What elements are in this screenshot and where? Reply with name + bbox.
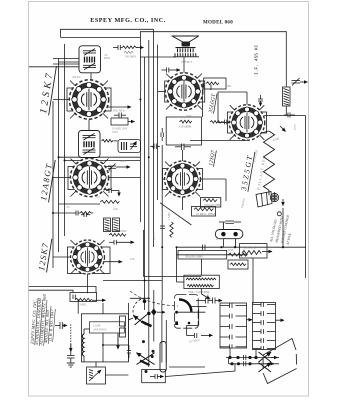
socket box V2 (68, 167, 111, 190)
socket box V4 (165, 81, 205, 102)
wire H y290 from border (29, 290, 73, 292)
wire H y64 (53, 63, 81, 65)
svg-text:10 MEG. OHM: 10 MEG. OHM (196, 212, 215, 216)
svg-text:.05: .05 (66, 206, 70, 209)
filter cap bank 2 (253, 303, 285, 350)
trimmer cap right of IF coil (292, 78, 308, 86)
wire T4 left (158, 91, 166, 93)
resistor box A under V5 (201, 198, 221, 208)
dial drive arc bold (179, 299, 191, 311)
svg-text:250V: 250V (112, 131, 118, 134)
wire H y57 speaker bottom (140, 56, 176, 58)
grid resistor box V4 (204, 78, 226, 89)
wire H y213 (53, 212, 72, 214)
socket box V3 (68, 247, 111, 274)
tone box (178, 250, 227, 259)
capacitor above oval (219, 221, 241, 223)
tuning gang section 1 (133, 298, 151, 326)
IF coil bottom connect (285, 106, 287, 116)
caps pair near x205 y300 (196, 298, 222, 304)
wire right of T4 (202, 84, 204, 92)
wire H y115 (264, 115, 306, 117)
dial cord square (175, 321, 178, 325)
wire H y286 from border (29, 287, 96, 293)
padder caps stack (120, 316, 126, 337)
wire field box down (252, 258, 254, 304)
cap right of T2 low (106, 188, 119, 196)
on-off switch X1 (259, 352, 272, 362)
bottom bus line 2 (229, 361, 279, 366)
wire x218 v (217, 92, 219, 123)
svg-text:MFD: MFD (104, 57, 110, 60)
label 12SQ7 V5 (208, 150, 217, 167)
label ballast gray (257, 154, 267, 191)
resistor+cap series y213 (72, 211, 93, 216)
svg-text:LOOP: LOOP (93, 325, 101, 328)
wire dial vertical x153.8 (152, 290, 156, 342)
label 35L6GT V4 (208, 93, 218, 115)
wire top loop A (61, 29, 154, 57)
cap arrow above V4 (161, 68, 180, 73)
osc coil box bottom (87, 367, 106, 384)
wire x143 down (142, 230, 144, 277)
vertical resistor mid (170, 222, 173, 237)
cap on left wire y146 (150, 144, 160, 150)
resistor top right of IF1 (113, 45, 144, 54)
coupling cap y247 (203, 245, 206, 251)
wire x226 v (225, 179, 227, 201)
svg-text:.0001 MFD: .0001 MFD (113, 110, 125, 113)
wire H y66.8 from border (29, 66, 81, 68)
svg-text:10W: 10W (228, 249, 234, 252)
wire mid bus 2 (144, 57, 146, 310)
main wire skeleton (29, 29, 306, 367)
antenna section outer box (82, 314, 129, 362)
wire V6 left (218, 122, 230, 124)
cap near V4 grid (210, 85, 212, 91)
dial wires (157, 307, 213, 338)
tube V6 35Z5GT (229, 105, 265, 141)
wire top bus B (140, 32, 286, 87)
wire oval stub down 1 (222, 239, 224, 248)
svg-text:300 OHM: 300 OHM (125, 56, 136, 59)
speaker field box (240, 244, 273, 259)
ballast tube tall box (160, 342, 166, 373)
wire right of T1 arrow (108, 106, 131, 108)
wires bottom-left connecting (78, 299, 205, 375)
wire H T1 bottom to bus (88, 120, 90, 131)
wire IF1 to T1 (90, 72, 92, 81)
trimmer dashed left (70, 324, 72, 343)
arrow below trimmer column (70, 344, 72, 352)
tube pin stubs V1 (70, 81, 108, 119)
wire T4 top to bus (183, 57, 185, 73)
junction dots y247 (220, 246, 222, 248)
label 12SK7 V1 (38, 64, 57, 115)
wire mid bus 4 (152, 57, 154, 247)
vertical wires into banks (229, 348, 256, 364)
small tone box 2 (228, 260, 248, 269)
tube pin stubs V3 (71, 240, 105, 274)
wire H y204 (59, 203, 101, 205)
wire H y247 (177, 246, 306, 248)
wire left vertical 1 (52, 101, 54, 268)
ant top cap (55, 322, 67, 329)
wire T5 left (162, 178, 165, 180)
svg-text:MODEL 060: MODEL 060 (203, 21, 233, 26)
svg-text:470K: 470K (225, 85, 231, 88)
bottom-left stamp text block (29, 293, 54, 346)
label 35Z5GT V6 (239, 150, 255, 192)
svg-text:47K: 47K (130, 258, 135, 261)
tube V3 12SK7 second det (71, 240, 105, 274)
dial cord dashed curve (130, 291, 178, 306)
line cord box (142, 341, 166, 383)
small node circle (277, 212, 281, 216)
osc coil mid (104, 218, 120, 232)
tube V5 12SQ7 (165, 161, 201, 197)
wire H y92 V6 (218, 91, 247, 93)
coupling cap V5 top (175, 144, 191, 151)
wire H left of IF1 b (59, 61, 81, 63)
svg-text:6.3V: 6.3V (216, 238, 222, 241)
wire lamp to bank (282, 208, 284, 247)
antenna box wires (84, 329, 128, 362)
wire H left of IF1 a (53, 58, 81, 60)
wire x176 down (176, 247, 178, 282)
tuning gang section 2 (137, 353, 155, 365)
svg-text:35W: 35W (186, 115, 192, 118)
cap left of gang2 (127, 345, 131, 358)
wire V6 top (246, 92, 248, 105)
wire H y157 (59, 156, 141, 158)
resistor right of IF2 (102, 139, 118, 142)
svg-text:.0001: .0001 (120, 160, 127, 163)
tube pin stubs V5 (165, 162, 200, 197)
wire V3 bottom down (87, 273, 89, 293)
stamp underlines (35, 298, 56, 346)
svg-text:ESPEY MFG. CO., INC.: ESPEY MFG. CO., INC. (90, 17, 166, 24)
wire right of T2 (109, 177, 141, 179)
svg-text:22K: 22K (113, 208, 118, 211)
dial drum box (175, 295, 199, 329)
wire mid bus 3 (148, 40, 150, 367)
bottom bus line 1 (226, 355, 279, 360)
tube V1 12SK7 (69, 80, 108, 119)
wire left vertical 2 (58, 59, 60, 253)
socket box V6 (228, 112, 267, 133)
tube V2 12A8GT (70, 158, 108, 196)
antenna inner label box (90, 322, 125, 333)
svg-text:0 V: 0 V (96, 196, 100, 199)
resistor under T2 (100, 200, 119, 203)
wire H y276 (143, 276, 201, 278)
volume pot lower-left box (70, 293, 106, 302)
resistor box B under V5 (192, 207, 216, 217)
filter cap bank 1 (220, 303, 252, 348)
wire pot top connect (201, 259, 203, 275)
gray small label sprinkles (66, 54, 297, 297)
wire H T2 left (53, 177, 71, 179)
tube V4 35L6GT (165, 73, 202, 110)
wire H T3 left (53, 256, 71, 258)
IF transformer 2 (79, 131, 101, 158)
arrow down right of lamp (282, 199, 284, 206)
svg-text:1 MEG: 1 MEG (168, 212, 171, 220)
label 12SK7 V3 (36, 237, 52, 272)
wire heater y140 (190, 140, 247, 142)
wire mid bus 6 (161, 145, 163, 300)
svg-text:I.F. 455 KC: I.F. 455 KC (254, 44, 260, 75)
arrow inside antenna box (117, 334, 119, 349)
wire H y280 (103, 280, 162, 282)
wire H y37 (61, 36, 141, 38)
oscillator trimmer can (118, 140, 141, 153)
svg-text:456 KC: 456 KC (72, 76, 81, 79)
ant series cap (67, 343, 75, 363)
capacitor near V6 top (258, 95, 263, 106)
wire divider bottom down (274, 192, 276, 201)
dial dot lower (188, 322, 191, 325)
arrow to divider top (280, 126, 286, 132)
wire mid bus 1 (139, 57, 141, 222)
wire power box to bus (165, 364, 235, 377)
arrow out of V3 (103, 261, 122, 263)
svg-text:150 OHM: 150 OHM (179, 125, 192, 129)
resistor above T3 right (109, 233, 134, 244)
on-off switch X2 (259, 363, 272, 373)
lamp housing wedge (256, 192, 272, 208)
wire V x202 (202, 84, 204, 118)
tube pin stubs V2 (71, 159, 109, 197)
speaker voice coil (182, 42, 191, 47)
wire mid bus 5 (157, 45, 159, 201)
junction dots left area (52, 99, 178, 347)
output transformer windings (173, 48, 199, 57)
wire right vertical x305 (305, 116, 307, 279)
plate resistor V4 (166, 117, 201, 145)
dial lamp oval assembly (215, 223, 243, 248)
wire IF2 to T2 (89, 153, 91, 159)
pilot lamp (270, 193, 278, 201)
socket box V1 (67, 88, 111, 111)
wire V6 to divider (261, 131, 269, 133)
cap box below T1 (111, 113, 135, 126)
wire ant box top (102, 303, 104, 314)
big divider resistor (264, 131, 275, 195)
dial cord junction dot (175, 311, 178, 314)
svg-text:OUTPUT: OUTPUT (181, 61, 192, 64)
wire H y160 (65, 159, 141, 161)
tube pin stubs V6 (230, 105, 265, 140)
wire tone box down (177, 281, 184, 283)
wire T5 right (200, 178, 226, 180)
wire T5 bottom (182, 197, 184, 211)
svg-text:117V: 117V (294, 124, 297, 130)
wire H y254 (177, 254, 248, 256)
cathode cap V4 (161, 128, 163, 141)
svg-text:2 MEG.: 2 MEG. (78, 304, 87, 307)
wire T5 to T4 vertical (182, 150, 184, 162)
svg-text:A.V.C.: A.V.C. (153, 232, 156, 240)
cap left mid (160, 226, 165, 228)
svg-text:ANTENNA: ANTENNA (93, 329, 107, 332)
volume control pot (184, 275, 219, 299)
capacitor x290 y113 (284, 113, 295, 118)
antenna coil winding (82, 334, 84, 356)
svg-text:.0001: .0001 (106, 170, 113, 173)
wire pot out to bus (130, 297, 149, 299)
IF transformer 1 (79, 46, 101, 73)
trimmer right of T2 (108, 164, 130, 171)
wire left vertical 3 (64, 44, 66, 236)
speaker cone (172, 36, 200, 44)
svg-text:B+ 100V: B+ 100V (140, 80, 143, 90)
ground under ant cap (67, 363, 75, 367)
wire H T1 left (53, 99, 70, 101)
chassis parallelogram (263, 339, 297, 384)
socket box V5 (163, 169, 203, 190)
wire diag T5 down (160, 203, 191, 225)
cap left of osc coil (81, 213, 91, 218)
tone resistor zigzag (228, 253, 247, 256)
IF output coil right (283, 87, 291, 106)
svg-text:SPEAKER: SPEAKER (243, 246, 256, 250)
resistor cap cluster right of V4 (210, 120, 232, 125)
label 12A8GT V2 (38, 158, 55, 202)
tube pin stubs V4 (166, 74, 202, 110)
svg-text:.01: .01 (206, 294, 210, 297)
